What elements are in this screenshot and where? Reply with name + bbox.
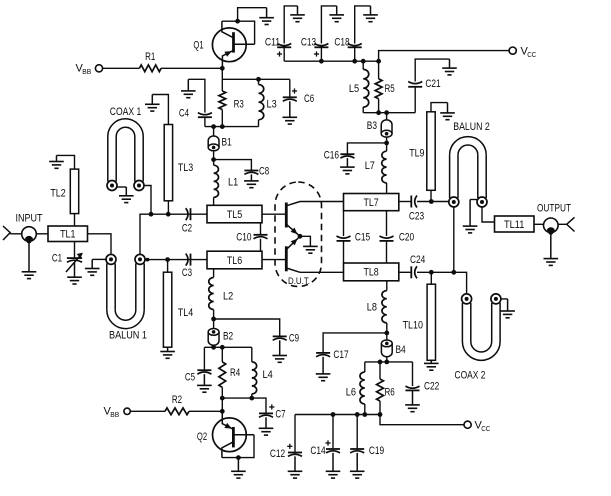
resistor R5 bbox=[375, 79, 382, 99]
capacitor C19 bbox=[350, 449, 364, 453]
label C8 bbox=[259, 166, 269, 178]
svg-text:C23: C23 bbox=[409, 211, 424, 223]
label B3 bbox=[367, 120, 377, 132]
inductor L8 bbox=[382, 291, 387, 323]
ground C5 bbox=[197, 374, 212, 392]
node B2 top bbox=[211, 317, 216, 322]
ground TL9 bbox=[440, 103, 455, 120]
node Q1 base-collector bbox=[235, 19, 240, 24]
svg-text:TL7: TL7 bbox=[363, 197, 378, 209]
transmission line TL10 bbox=[427, 284, 435, 360]
wire TL5 row bbox=[151, 213, 207, 215]
node Q1 emitter bbox=[220, 66, 225, 71]
wire TL3 top to ground arm bbox=[152, 95, 168, 125]
wire jack to connector bbox=[558, 223, 566, 225]
capacitor C18 bbox=[348, 44, 362, 48]
capacitor C13 bbox=[314, 44, 329, 57]
svg-text:C24: C24 bbox=[410, 254, 425, 266]
label C12 bbox=[270, 448, 285, 460]
ground output jack bbox=[544, 235, 559, 266]
node B1 bottom bbox=[211, 157, 216, 162]
svg-text:BB: BB bbox=[110, 410, 119, 419]
node TL10 top bbox=[429, 270, 434, 275]
svg-text:TL10: TL10 bbox=[403, 320, 423, 332]
svg-text:B3: B3 bbox=[367, 120, 377, 132]
wire TL2 top to ground arm bbox=[57, 155, 75, 169]
capacitor C8 bbox=[244, 171, 258, 175]
svg-text:C20: C20 bbox=[399, 232, 414, 244]
svg-text:C2: C2 bbox=[182, 223, 192, 235]
node R3 bottom bbox=[220, 124, 225, 129]
label C9 bbox=[289, 333, 299, 345]
wire TL4 to row bbox=[167, 260, 169, 273]
label L3 bbox=[267, 99, 277, 111]
wire node to C9 bbox=[214, 319, 280, 336]
svg-text:L4: L4 bbox=[263, 369, 273, 381]
svg-text:C10: C10 bbox=[236, 232, 251, 244]
wire bus to C12 bbox=[294, 415, 296, 453]
wire BALUN2 shield to ground bbox=[470, 199, 477, 201]
node COAX1 junction bbox=[149, 212, 154, 217]
capacitor C15 bbox=[337, 236, 351, 241]
wire C13 to bus bbox=[320, 47, 322, 61]
inductor L7 bbox=[382, 151, 387, 183]
label L4 bbox=[263, 369, 273, 381]
terminal VCC top bbox=[509, 47, 516, 54]
svg-text:C15: C15 bbox=[355, 232, 370, 244]
wire TL9 top to ground arm bbox=[431, 103, 448, 112]
wire TL8 to C24 bbox=[399, 271, 412, 273]
ground TL10 bbox=[424, 360, 439, 370]
node B4 top bbox=[384, 331, 389, 336]
wire node to C17 bbox=[323, 333, 387, 353]
transmission line TL9 bbox=[427, 112, 435, 191]
svg-text:B4: B4 bbox=[396, 344, 406, 356]
svg-text:L7: L7 bbox=[365, 160, 375, 172]
label L8 bbox=[367, 302, 377, 314]
wire C23 to BALUN2 bbox=[417, 201, 449, 203]
svg-text:B2: B2 bbox=[223, 331, 233, 343]
ground Q2 bbox=[231, 458, 246, 479]
ground TL4 bbox=[160, 347, 175, 358]
label R4 bbox=[230, 367, 240, 379]
ground C16 bbox=[340, 158, 355, 174]
wire TL5 to DUT base bbox=[262, 213, 285, 215]
wire L3 top stub bbox=[258, 79, 260, 84]
node B3 top bbox=[384, 110, 389, 115]
svg-text:TL2: TL2 bbox=[50, 188, 65, 200]
wire C11 to ground arm bbox=[284, 6, 297, 44]
svg-text:L8: L8 bbox=[367, 302, 377, 314]
svg-text:CC: CC bbox=[481, 424, 490, 433]
capacitor C16 bbox=[340, 154, 354, 158]
capacitor C11 bbox=[277, 44, 291, 57]
node BALUN1 output bbox=[146, 258, 150, 262]
wire TL6 to L2 bbox=[213, 269, 215, 278]
wire L2 to node bbox=[213, 310, 215, 320]
node TL9 bottom bbox=[429, 199, 434, 204]
svg-text:TL1: TL1 bbox=[60, 229, 75, 241]
capacitor C3 bbox=[186, 254, 191, 266]
label B4 bbox=[396, 344, 406, 356]
node B4 bottom bbox=[384, 360, 389, 365]
label TL4 bbox=[178, 307, 193, 319]
svg-text:D.U.T.: D.U.T. bbox=[288, 276, 310, 287]
wire node to L1 bbox=[213, 160, 215, 166]
label C2 bbox=[182, 223, 192, 235]
svg-text:C12: C12 bbox=[270, 448, 285, 460]
ground C4 bbox=[181, 79, 196, 97]
svg-text:R6: R6 bbox=[385, 387, 395, 399]
wire TL9 to node bbox=[430, 190, 432, 201]
capacitor C22 bbox=[406, 386, 420, 390]
wire Q1 emitter to R3 branch bbox=[221, 68, 223, 91]
resistor R2 bbox=[165, 408, 189, 415]
label C5 bbox=[185, 372, 195, 384]
wire BALUN1 to TL6 row bbox=[145, 259, 207, 261]
wire rail to L4 bbox=[251, 347, 253, 362]
capacitor C1 (variable) bbox=[66, 253, 83, 272]
svg-text:TL6: TL6 bbox=[227, 255, 242, 267]
node R4 top bbox=[220, 345, 225, 350]
wire node to L7 bbox=[386, 143, 388, 151]
label C23 bbox=[409, 211, 424, 223]
label TL9 bbox=[409, 148, 424, 160]
wire bus to VCC bbox=[380, 415, 464, 425]
wire C4 top to ground arm bbox=[188, 79, 205, 112]
capacitor C6 bbox=[283, 88, 297, 101]
wire connector to jack bbox=[10, 233, 22, 235]
node R5 bus bbox=[376, 59, 381, 64]
wire C15 to TL8 bbox=[343, 241, 345, 263]
transmission line TL7 bbox=[344, 194, 399, 211]
node B2 bottom bbox=[211, 345, 216, 350]
svg-text:C8: C8 bbox=[259, 166, 269, 178]
ground C14 bbox=[326, 453, 341, 478]
wire DUT collector to TL7 bbox=[300, 201, 344, 203]
ground C18 bbox=[363, 6, 378, 22]
svg-text:C3: C3 bbox=[182, 267, 192, 279]
coax line COAX1 bbox=[107, 119, 144, 191]
svg-text:OUTPUT: OUTPUT bbox=[537, 203, 571, 215]
wire bus to C14 bbox=[332, 415, 334, 450]
capacitor C4 bbox=[198, 113, 212, 118]
svg-text:C19: C19 bbox=[369, 445, 384, 457]
resistor R3 bbox=[219, 91, 226, 110]
label C1 bbox=[52, 253, 62, 265]
wire rail to L6 bbox=[364, 362, 366, 372]
transmission line TL3 bbox=[164, 125, 172, 201]
ground C8 bbox=[244, 174, 259, 187]
ground TL3 bbox=[145, 95, 160, 112]
transmission line TL2 bbox=[70, 169, 78, 214]
label R1 bbox=[145, 51, 155, 63]
label BALUN 2 bbox=[453, 121, 490, 133]
svg-text:R2: R2 bbox=[172, 394, 182, 406]
svg-text:TL4: TL4 bbox=[178, 307, 193, 319]
wire rail to R6 bbox=[379, 362, 381, 379]
wire bus to R5 bbox=[378, 61, 380, 79]
wire C20 to TL8 bbox=[386, 241, 388, 263]
wire lower rail to C7 bbox=[222, 398, 266, 413]
transistor DUT lower (NPN) bbox=[286, 236, 300, 272]
label Q1 bbox=[193, 40, 203, 52]
svg-text:R3: R3 bbox=[234, 99, 244, 111]
node TL3 bottom bbox=[166, 212, 171, 217]
ground input jack bbox=[22, 243, 37, 279]
wire rail to B3 bbox=[386, 113, 388, 120]
wire L4 to lower rail bbox=[251, 394, 253, 398]
ferrite bead B2 bbox=[208, 329, 219, 346]
svg-text:R5: R5 bbox=[385, 83, 395, 95]
svg-text:COAX 2: COAX 2 bbox=[455, 370, 486, 382]
svg-text:B1: B1 bbox=[222, 137, 232, 149]
label L2 bbox=[223, 291, 233, 303]
label C24 bbox=[410, 254, 425, 266]
wire COAX1 shield to ground bbox=[117, 186, 127, 188]
capacitor C20 bbox=[380, 236, 394, 241]
wire L7 to TL7 bbox=[386, 183, 388, 194]
node L3 top bbox=[256, 77, 261, 82]
svg-text:BALUN 2: BALUN 2 bbox=[453, 121, 490, 133]
node R6 bus bbox=[378, 412, 383, 417]
label D.U.T. bbox=[288, 276, 310, 287]
inductor L5 bbox=[363, 69, 369, 107]
svg-text:TL9: TL9 bbox=[409, 148, 424, 160]
input connector bbox=[3, 226, 10, 240]
wire R4 to lower rail bbox=[221, 387, 223, 398]
wire DUT collector to TL8 bbox=[300, 271, 344, 273]
svg-text:L5: L5 bbox=[349, 83, 359, 95]
inductor L6 bbox=[360, 372, 365, 404]
capacitor C21 bbox=[408, 82, 422, 87]
wire Q1 node to ground bbox=[238, 8, 267, 22]
capacitor C5 bbox=[197, 370, 211, 374]
svg-text:L3: L3 bbox=[267, 99, 277, 111]
ground C12 bbox=[288, 456, 303, 478]
wire Q1 feedback loop bbox=[222, 21, 255, 44]
wire bias bottom rail bbox=[205, 126, 259, 128]
svg-text:CC: CC bbox=[527, 50, 536, 59]
label C19 bbox=[369, 445, 384, 457]
ground C6 bbox=[283, 101, 298, 124]
wire TL10 to node bbox=[430, 272, 432, 284]
wire R2 to Q2 node bbox=[189, 410, 222, 412]
wire L6 to bus bbox=[364, 404, 366, 415]
wire bus to VCC bbox=[379, 51, 509, 62]
label BALUN 1 bbox=[109, 330, 147, 342]
label Q2 bbox=[197, 431, 207, 443]
wire Q2 node up bbox=[221, 398, 223, 411]
label TL10 bbox=[403, 320, 423, 332]
svg-text:C6: C6 bbox=[304, 93, 314, 105]
transmission line TL11 bbox=[495, 216, 535, 232]
label B2 bbox=[223, 331, 233, 343]
label C3 bbox=[182, 267, 192, 279]
wire L1 to TL5 bbox=[213, 197, 215, 205]
svg-text:BB: BB bbox=[82, 67, 91, 76]
capacitor C17 bbox=[316, 353, 330, 357]
wire C13 to ground arm bbox=[321, 6, 336, 44]
inductor L3 bbox=[259, 85, 264, 120]
label C6 bbox=[304, 93, 314, 105]
svg-text:TL11: TL11 bbox=[504, 219, 524, 231]
label C20 bbox=[399, 232, 414, 244]
node C13 bus bbox=[319, 59, 324, 64]
wire C24 to COAX2 bbox=[417, 272, 467, 294]
ground BALUN1 bbox=[85, 259, 100, 275]
wire C21 to rail bbox=[414, 87, 416, 113]
balun BALUN1 bbox=[106, 254, 145, 328]
wire TL2 to TL1 bbox=[74, 214, 76, 226]
label L7 bbox=[365, 160, 375, 172]
wire C21 top to ground arm bbox=[415, 59, 449, 81]
ground C17 bbox=[316, 357, 331, 381]
wire C18 to ground arm bbox=[355, 6, 371, 44]
node TL4 top bbox=[165, 257, 170, 262]
transmission line TL5 bbox=[207, 205, 262, 223]
terminal VCC bottom bbox=[464, 421, 471, 428]
wire L6-R6 rail bbox=[365, 361, 413, 363]
wire TL1 to BALUN1 bbox=[88, 234, 112, 255]
ferrite bead B3 bbox=[381, 120, 392, 137]
svg-text:C5: C5 bbox=[185, 372, 195, 384]
svg-text:C17: C17 bbox=[333, 349, 348, 361]
capacitor C9 bbox=[273, 336, 287, 340]
ground TL2 bbox=[49, 155, 64, 168]
capacitor C2 bbox=[186, 208, 191, 220]
wire R4-L4 rail bbox=[204, 346, 251, 348]
label INPUT bbox=[16, 213, 43, 225]
wire TL1 to C1 bbox=[74, 242, 76, 259]
svg-text:C4: C4 bbox=[179, 108, 189, 120]
wire TL11 to jack bbox=[534, 223, 544, 225]
wire TL7 to C20 bbox=[386, 211, 388, 236]
coax line COAX2 bbox=[462, 294, 501, 360]
node C19 bus bbox=[355, 412, 360, 417]
svg-text:C22: C22 bbox=[424, 381, 439, 393]
wire jack to TL1 bbox=[36, 233, 48, 235]
label C11 bbox=[265, 37, 280, 49]
output jack J2 bbox=[544, 218, 559, 235]
wire C4 to rail bbox=[204, 117, 206, 126]
ground C7 bbox=[259, 417, 274, 435]
wire R3 to bottom rail bbox=[221, 110, 223, 127]
wire BALUN2 to TL11 bbox=[482, 207, 495, 222]
label C18 bbox=[334, 37, 349, 49]
svg-text:Q1: Q1 bbox=[193, 40, 203, 52]
label C22 bbox=[424, 381, 439, 393]
wire C11 to bus bbox=[283, 47, 285, 61]
ground C22 bbox=[405, 390, 420, 411]
wire COAX2 shield to ground bbox=[501, 298, 508, 300]
node BALUN2 bottom bbox=[451, 270, 456, 275]
wire node to B2 bbox=[213, 319, 215, 329]
label R5 bbox=[385, 83, 395, 95]
svg-text:R1: R1 bbox=[145, 51, 155, 63]
ground BALUN2 bbox=[463, 200, 478, 233]
label C15 bbox=[355, 232, 370, 244]
terminal VBB top bbox=[95, 65, 102, 72]
capacitor C24 bbox=[411, 266, 417, 278]
wire TL7 to C23 bbox=[399, 201, 412, 203]
svg-text:BALUN 1: BALUN 1 bbox=[109, 330, 147, 342]
node L5 bus bbox=[361, 59, 366, 64]
node Q2 base-collector bbox=[236, 455, 241, 460]
ground C19 bbox=[350, 453, 365, 478]
wire BALUN1 to TL5 row bbox=[140, 214, 151, 254]
capacitor C10 bbox=[254, 235, 268, 239]
wire branch row to L3 and C6 bbox=[222, 78, 289, 80]
capacitor C7 bbox=[259, 404, 274, 417]
svg-text:C9: C9 bbox=[289, 333, 299, 345]
transmission line TL1 bbox=[48, 226, 88, 242]
transistor Q1 bbox=[212, 21, 254, 68]
input jack J1 bbox=[22, 227, 37, 244]
wire bus to C19 bbox=[356, 415, 358, 450]
svg-text:C14: C14 bbox=[310, 445, 325, 457]
wire node to C8 bbox=[214, 160, 252, 171]
transmission line TL8 bbox=[344, 263, 399, 281]
output connector bbox=[567, 217, 575, 231]
wire B3 to node bbox=[386, 137, 388, 143]
wire L5 to rail bbox=[362, 107, 364, 113]
wire VBB to R1 bbox=[103, 67, 140, 69]
wire C18 to bus bbox=[354, 47, 356, 61]
capacitor C14 bbox=[325, 440, 340, 453]
svg-text:R4: R4 bbox=[230, 367, 240, 379]
wire TL6 to DUT base bbox=[262, 259, 285, 261]
wire top cap bus bbox=[284, 60, 378, 62]
wire L3 to bottom rail bbox=[258, 120, 260, 127]
wire L5-R5 rail bbox=[363, 112, 415, 114]
wire rail to C22 bbox=[412, 362, 414, 386]
ground COAX2 bbox=[500, 299, 515, 318]
node R4 bottom bbox=[220, 396, 225, 401]
resistor R4 bbox=[219, 362, 226, 388]
ground C11 bbox=[290, 6, 305, 22]
label TL2 bbox=[50, 188, 65, 200]
wire R6 to bus bbox=[379, 401, 381, 415]
svg-text:C7: C7 bbox=[275, 409, 285, 421]
capacitor C12 bbox=[287, 444, 302, 457]
node L6 bus bbox=[362, 412, 367, 417]
label R3 bbox=[234, 99, 244, 111]
node C14 bus bbox=[331, 412, 336, 417]
wire B1 to node bbox=[213, 151, 215, 160]
label C14 bbox=[310, 445, 325, 457]
svg-text:L1: L1 bbox=[228, 177, 238, 189]
node R6 top bbox=[378, 360, 383, 365]
wire rail to C5 bbox=[203, 347, 205, 370]
wire TL3 to row bbox=[167, 201, 169, 214]
transmission line TL4 bbox=[163, 272, 171, 347]
svg-text:C21: C21 bbox=[425, 78, 440, 90]
node B3 bottom bbox=[384, 141, 389, 146]
wire TL7 to C15 bbox=[343, 211, 345, 236]
ground COAX1 bbox=[119, 187, 134, 203]
label VCC (top) bbox=[521, 46, 537, 60]
label C17 bbox=[333, 349, 348, 361]
label C16 bbox=[324, 150, 339, 162]
balun BALUN2 bbox=[449, 137, 487, 207]
wire BALUN2 left to row bbox=[453, 207, 455, 272]
label L1 bbox=[228, 177, 238, 189]
label C10 bbox=[236, 232, 251, 244]
wire TL5 to C10 bbox=[260, 223, 262, 235]
ferrite bead B4 bbox=[381, 340, 392, 357]
svg-text:C13: C13 bbox=[301, 37, 316, 49]
